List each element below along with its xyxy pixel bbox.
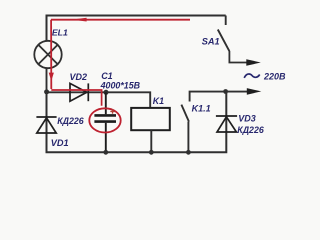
node: relay bottom junction [149,150,154,155]
switch contact K1.1 [181,105,189,153]
svg-text:VD1: VD1 [51,138,69,148]
relay coil K1 [131,108,170,130]
wire: lamp bottom to left junction [46,68,48,93]
node: capacitor bottom junction [103,150,108,155]
svg-text:EL1: EL1 [52,28,68,38]
svg-text:4000*15В: 4000*15В [100,80,141,90]
svg-text:КД226: КД226 [57,116,84,126]
wire: top rail [47,16,226,42]
red annotation: ellipse around C1 [89,108,120,132]
switch SA1 [218,16,250,63]
~ 220V label [244,74,260,78]
svg-text:K1.1: K1.1 [192,103,211,113]
diode VD1 [36,117,56,133]
svg-text:КД226: КД226 [237,125,264,135]
svg-text:VD3: VD3 [238,114,256,124]
red current trace: top line [51,19,190,21]
svg-text:VD2: VD2 [70,72,88,82]
red arrow on top line (pointing left) [72,18,87,22]
red annotation: plus sign [110,109,115,113]
svg-text:SA1: SA1 [202,36,220,46]
node: right rail junction [223,89,228,94]
svg-text:C1: C1 [101,71,113,81]
diode VD2 [70,83,88,101]
svg-text:K1: K1 [153,96,164,106]
red arrow through lamp (pointing down) [49,73,54,81]
node: K1.1 bottom junction [186,150,191,155]
red current trace: vertical through lamp [50,20,52,89]
arrow: 220V terminal 1 [246,59,260,66]
node: capacitor top junction [104,90,109,95]
wire: relay bottom to rail [150,130,152,152]
wire: right rail with arrow (220V terminal 2) [190,92,250,102]
wire: bottom rail [47,92,227,152]
red current trace: along bottom rail [51,90,101,106]
diode VD3 [216,116,237,132]
svg-text:220В: 220В [263,72,286,82]
node: left junction [44,89,49,94]
capacitor C1 [94,92,116,152]
wire: left rail and relay drop [47,92,151,108]
lamp EL1 [34,41,61,68]
